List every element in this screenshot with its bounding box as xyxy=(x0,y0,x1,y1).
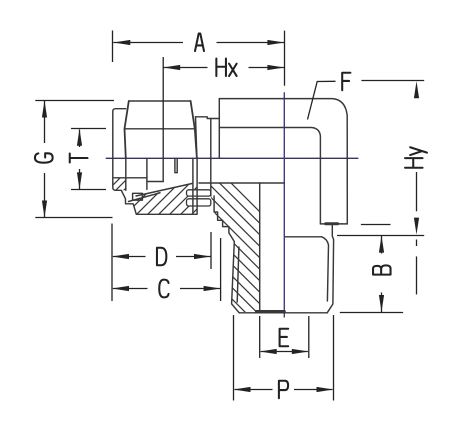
ferrule small box xyxy=(133,193,143,200)
arrow T down xyxy=(77,172,82,189)
vertical centerline xyxy=(283,92,285,317)
body hatch \ direction xyxy=(160,147,290,357)
arrow Hy down xyxy=(414,218,419,235)
dim C extension right xyxy=(220,238,222,301)
label Hy xyxy=(405,147,427,168)
arrow A right xyxy=(267,40,284,45)
arrow P right xyxy=(317,387,334,392)
body face line xyxy=(210,119,212,197)
label F xyxy=(342,73,350,91)
dim T extension top xyxy=(71,128,106,130)
arrow P left xyxy=(234,387,251,392)
nut section outline xyxy=(113,158,197,214)
dim P extension left xyxy=(233,315,235,401)
arrow D right xyxy=(194,254,211,259)
nut end cap xyxy=(113,109,126,159)
dim T line xyxy=(79,130,81,148)
dim D extension right xyxy=(210,232,212,269)
arrow C left xyxy=(112,286,129,291)
label G xyxy=(35,153,53,162)
body bottom extension line xyxy=(361,224,391,226)
arrow Hx right xyxy=(267,65,284,70)
stub left minor thread line xyxy=(237,247,239,302)
dim B extension bottom xyxy=(340,312,403,314)
bore bottom line xyxy=(199,182,284,184)
dim G line xyxy=(44,101,46,143)
nut hex top flat xyxy=(129,100,191,102)
nut hex left chamfer edge xyxy=(125,101,129,158)
dim B line xyxy=(381,236,383,254)
arrow B up xyxy=(379,236,384,253)
body bottom edge xyxy=(320,223,347,225)
arrow A left xyxy=(113,40,130,45)
dim E extension left xyxy=(259,316,261,358)
horizontal centerline xyxy=(85,157,358,159)
label P xyxy=(279,381,288,399)
nut inner thread line xyxy=(192,158,194,213)
tube bottom edge xyxy=(147,181,163,183)
stub right major line xyxy=(327,224,333,313)
F leader line xyxy=(308,81,336,119)
arrow G up xyxy=(42,101,47,118)
ferrule back edge xyxy=(146,158,148,189)
dim T extension bottom xyxy=(71,189,106,191)
label D xyxy=(157,248,166,266)
tube end line xyxy=(162,158,164,181)
dim B extension top xyxy=(337,235,424,237)
dim P extension right xyxy=(333,315,335,401)
body seat lines xyxy=(175,158,177,172)
arrow E right xyxy=(292,349,309,354)
arrow D left xyxy=(112,254,129,259)
label B xyxy=(373,265,391,274)
dim Hx line xyxy=(163,67,207,69)
vertical bore left wall xyxy=(259,183,261,310)
dim A line xyxy=(113,42,183,44)
dim Hy top line xyxy=(361,80,424,82)
dim A/Hx extension right xyxy=(284,31,286,86)
part outlines xyxy=(113,99,347,313)
dim G extension top xyxy=(35,100,114,102)
ferrule front taper line xyxy=(136,184,192,197)
dim P line xyxy=(235,389,273,391)
body section staircase xyxy=(214,196,239,313)
body thread tab 2 xyxy=(187,199,211,206)
ferrule wedge line xyxy=(129,193,161,202)
stub bottom thick cut segment xyxy=(256,310,284,313)
body thread tab 1 xyxy=(187,190,211,196)
dim C/D extension left xyxy=(111,224,113,302)
dim D line xyxy=(113,256,146,258)
label Hx xyxy=(216,59,236,77)
arrow B down xyxy=(379,295,384,312)
label C xyxy=(159,280,168,298)
nut hex right chamfer edge xyxy=(191,101,197,158)
dim Hy segments xyxy=(416,172,418,211)
arrow Hy up xyxy=(414,81,419,98)
nut hatch / direction xyxy=(98,155,164,203)
stub bottom edge xyxy=(239,312,327,314)
arrow E left xyxy=(260,349,277,354)
nut right face upper xyxy=(196,117,197,159)
arrow T up xyxy=(77,129,82,146)
arrowheads xyxy=(42,40,419,392)
neck top lines xyxy=(196,117,219,119)
label A xyxy=(195,34,204,52)
label T xyxy=(70,154,88,163)
dim E line xyxy=(261,351,308,353)
dim G extension bottom xyxy=(35,217,112,219)
nut hex mid line xyxy=(125,128,195,130)
stub right inner thread line xyxy=(322,237,329,301)
dim C line xyxy=(113,288,148,290)
body left face xyxy=(218,99,220,159)
dim A extension left xyxy=(112,31,114,63)
nut hex left edge below centerline xyxy=(125,158,127,190)
dim E extension right xyxy=(308,316,310,358)
body inner boss line xyxy=(219,128,320,224)
dim Hx extension left xyxy=(162,57,164,158)
body top edge with corner xyxy=(219,99,347,224)
body bottom thick cut segment xyxy=(326,222,338,225)
tube bore left edge xyxy=(114,177,147,179)
thread start line xyxy=(285,236,321,238)
dimensions xyxy=(35,31,424,401)
arrow G down xyxy=(42,201,47,218)
arrow C right xyxy=(204,286,221,291)
arrow Hx left xyxy=(163,65,180,70)
label E xyxy=(280,329,289,347)
